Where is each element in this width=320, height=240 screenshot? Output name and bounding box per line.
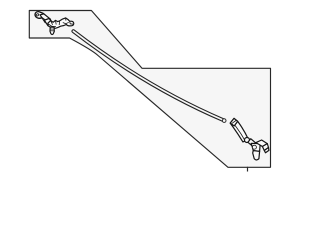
cable end ferrule <box>222 119 226 123</box>
junction block <box>251 143 260 151</box>
body and arm <box>48 18 74 28</box>
lower link <box>248 139 257 148</box>
eyelet clip <box>35 12 44 19</box>
panel outline band <box>29 11 270 168</box>
flange notch <box>264 148 269 153</box>
handle bar <box>230 118 248 142</box>
tick mark on bottom edge <box>247 167 249 172</box>
cable rod <box>73 31 226 122</box>
junction bolt <box>252 145 256 149</box>
handle cap facet <box>230 118 238 126</box>
post <box>50 27 54 35</box>
flange box top <box>256 140 267 147</box>
foot <box>253 151 260 160</box>
bar ridge <box>235 125 245 141</box>
bracket B2 (bottom-right lever) <box>230 118 269 160</box>
joint circle <box>245 138 250 143</box>
strap segment 1 <box>40 14 51 23</box>
arm facet lines <box>48 18 73 27</box>
flange box front <box>262 144 268 151</box>
bracket B1 (top-left part) <box>35 12 74 35</box>
strap segment 2 <box>44 19 53 26</box>
